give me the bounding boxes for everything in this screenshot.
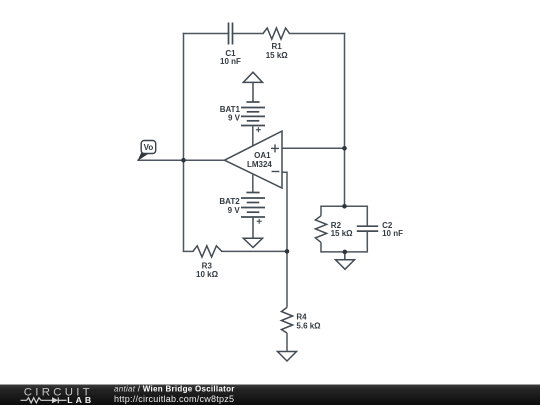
wire bbox=[286, 333, 288, 352]
battery BAT2 bbox=[219, 174, 265, 224]
op-amp OA1 bbox=[225, 131, 283, 188]
capacitor C1 bbox=[220, 23, 241, 66]
svg-text:9 V: 9 V bbox=[228, 114, 241, 123]
svg-text:10 kΩ: 10 kΩ bbox=[196, 270, 219, 279]
resistor R3 bbox=[193, 246, 222, 279]
svg-text:R1: R1 bbox=[271, 42, 282, 51]
wire bbox=[286, 251, 288, 307]
svg-text:10 nF: 10 nF bbox=[220, 57, 241, 66]
ground (below BAT2) bbox=[243, 217, 262, 248]
wire bbox=[184, 33, 229, 35]
resistor R1 bbox=[263, 28, 290, 60]
wire bbox=[183, 34, 185, 252]
node: output junction bbox=[181, 158, 186, 163]
svg-text:10 nF: 10 nF bbox=[382, 229, 403, 238]
node: tank bottom junction bbox=[343, 250, 348, 255]
wire bbox=[222, 250, 287, 252]
logo wire with resistor and diode bbox=[21, 397, 67, 403]
wire bbox=[321, 251, 367, 253]
svg-text:R4: R4 bbox=[296, 312, 307, 321]
node: tank top junction bbox=[342, 204, 347, 209]
capacitor C2 bbox=[357, 206, 403, 252]
svg-text:5.6 kΩ: 5.6 kΩ bbox=[296, 321, 321, 330]
node: noninverting input junction bbox=[342, 146, 347, 151]
battery BAT1 bbox=[220, 102, 265, 147]
flag Vo bbox=[138, 141, 156, 161]
ground (below R4) bbox=[278, 352, 297, 362]
wire bbox=[282, 147, 345, 149]
node: feedback junction bbox=[285, 249, 290, 254]
footer bar bbox=[0, 385, 540, 405]
wire bbox=[321, 205, 367, 207]
svg-text:15 kΩ: 15 kΩ bbox=[266, 51, 289, 60]
wire bbox=[233, 33, 264, 35]
wire bbox=[138, 159, 225, 161]
ground (above BAT1) bbox=[243, 72, 262, 102]
svg-text:9 V: 9 V bbox=[228, 206, 241, 215]
svg-text:BAT2: BAT2 bbox=[219, 197, 240, 206]
wire bbox=[344, 148, 346, 206]
svg-text:LM324: LM324 bbox=[247, 160, 272, 169]
wire bbox=[184, 250, 193, 252]
svg-text:LAB: LAB bbox=[67, 395, 94, 405]
svg-text:OA1: OA1 bbox=[254, 151, 271, 160]
resistor R4 bbox=[281, 251, 321, 351]
svg-text:antiat / Wien Bridge Oscillato: antiat / Wien Bridge Oscillator bbox=[114, 385, 235, 394]
wire bbox=[344, 34, 346, 149]
svg-text:15 kΩ: 15 kΩ bbox=[331, 229, 354, 238]
wire bbox=[252, 174, 254, 193]
svg-text:Vo: Vo bbox=[144, 143, 154, 152]
resistor R2 bbox=[315, 206, 353, 252]
svg-text:http://circuitlab.com/cw8tpz5: http://circuitlab.com/cw8tpz5 bbox=[114, 394, 234, 404]
ground (tank) bbox=[336, 252, 355, 269]
wire bbox=[282, 172, 287, 251]
wire bbox=[252, 126, 254, 147]
wire bbox=[290, 33, 345, 35]
